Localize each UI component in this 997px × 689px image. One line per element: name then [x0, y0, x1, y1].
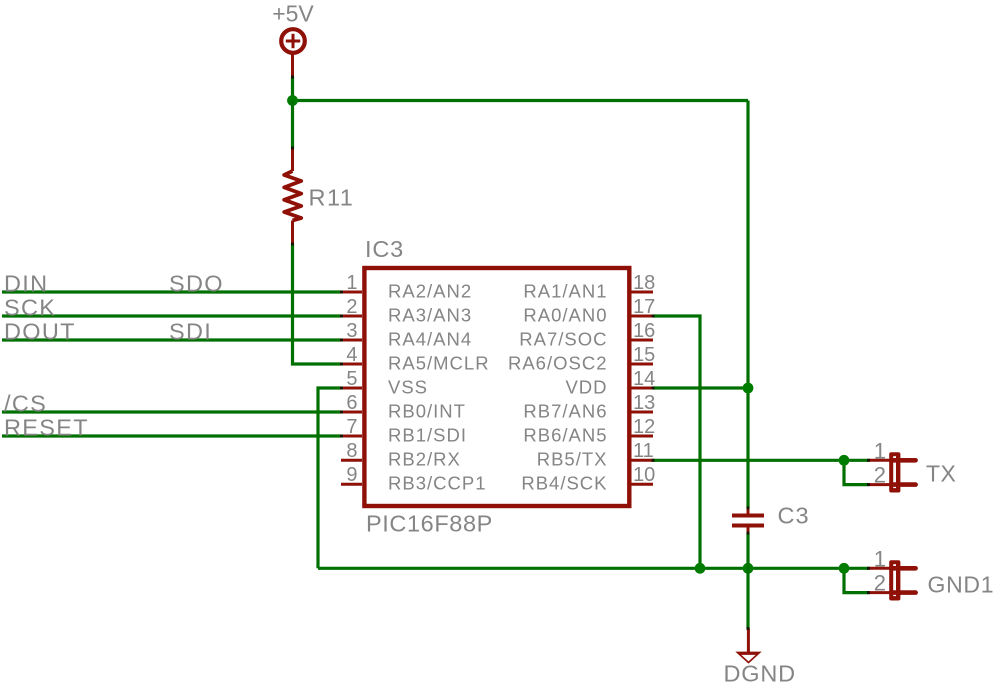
- svg-text:13: 13: [633, 392, 655, 414]
- wire R11 to pin 4: [293, 244, 342, 365]
- supply +5V: [281, 29, 305, 76]
- junction bus at x700: [695, 563, 706, 574]
- pin 17: [523, 296, 655, 326]
- svg-text:RB0/INT: RB0/INT: [388, 401, 466, 422]
- wire +5V stub to junction: [291, 77, 294, 101]
- wire pin 14 VDD to vertical: [653, 386, 748, 389]
- wire right vertical VDD drop: [746, 101, 749, 509]
- svg-text:9: 9: [346, 464, 357, 486]
- ground DGND: [735, 628, 761, 663]
- svg-text:RB4/SCK: RB4/SCK: [521, 473, 607, 494]
- svg-text:2: 2: [874, 571, 886, 596]
- pin 3: [341, 320, 472, 350]
- junction VDD: [743, 383, 754, 394]
- svg-text:TX: TX: [926, 461, 956, 487]
- resistor R11: [284, 149, 301, 244]
- svg-text:GND1: GND1: [928, 572, 995, 598]
- wire pin 17 down to bus: [653, 316, 700, 568]
- svg-text:SDI: SDI: [169, 319, 212, 345]
- svg-text:15: 15: [633, 344, 655, 366]
- pin 6: [341, 392, 466, 422]
- pin 8: [341, 440, 461, 470]
- wire GND1 pin2 drop: [844, 568, 869, 592]
- svg-text:+5V: +5V: [272, 1, 314, 27]
- connector GND1: [869, 546, 916, 600]
- pin 11: [537, 440, 654, 470]
- svg-text:IC3: IC3: [365, 236, 404, 262]
- wire VSS pin 5 to ground bus: [318, 388, 341, 568]
- svg-text:DIN: DIN: [4, 271, 48, 297]
- svg-text:RB5/TX: RB5/TX: [537, 449, 608, 470]
- svg-text:2: 2: [346, 296, 357, 318]
- wire C3 to DGND: [746, 533, 749, 628]
- svg-text:RA2/AN2: RA2/AN2: [388, 281, 472, 302]
- svg-text:VSS: VSS: [388, 377, 428, 398]
- svg-text:RA3/AN3: RA3/AN3: [388, 305, 472, 326]
- wire top horizontal run: [293, 99, 749, 102]
- svg-text:SCK: SCK: [4, 295, 56, 321]
- wire bottom ground bus: [318, 567, 869, 570]
- svg-text:RA0/AN0: RA0/AN0: [523, 305, 607, 326]
- junction at +5V node: [287, 95, 298, 106]
- pin connection darkening marks: [291, 76, 870, 630]
- svg-text:RB2/RX: RB2/RX: [388, 449, 461, 470]
- pin 13: [523, 392, 655, 422]
- svg-text:RESET: RESET: [4, 415, 89, 441]
- svg-text:R11: R11: [309, 185, 355, 211]
- svg-text:6: 6: [346, 392, 357, 414]
- svg-text:18: 18: [633, 272, 655, 294]
- wire net SCK to pin 2: [2, 314, 341, 317]
- svg-text:DOUT: DOUT: [4, 319, 76, 345]
- svg-text:16: 16: [633, 320, 655, 342]
- pin 15: [508, 344, 655, 374]
- svg-text:RB6/AN5: RB6/AN5: [523, 425, 607, 446]
- wire pin 11 RB5/TX to connector: [653, 459, 869, 462]
- svg-text:1: 1: [874, 438, 886, 463]
- capacitor C3: [732, 508, 764, 533]
- svg-text:3: 3: [346, 320, 357, 342]
- pin 2: [341, 296, 472, 326]
- wire net DIN to pin 1: [2, 290, 341, 293]
- pin 1: [341, 272, 472, 302]
- pin 5: [341, 368, 428, 398]
- svg-text:10: 10: [633, 464, 655, 486]
- svg-text:RA4/AN4: RA4/AN4: [388, 329, 472, 350]
- pin 7: [341, 416, 467, 446]
- junction bus at x844: [839, 563, 850, 574]
- pin 14: [565, 368, 655, 398]
- svg-text:11: 11: [633, 440, 654, 462]
- pin 18: [523, 272, 655, 302]
- svg-text:8: 8: [346, 440, 357, 462]
- svg-text:VDD: VDD: [565, 377, 607, 398]
- wire net RESET to pin 7: [2, 434, 341, 437]
- pin 9: [341, 464, 486, 494]
- svg-text:1: 1: [346, 272, 357, 294]
- svg-text:4: 4: [346, 344, 357, 366]
- svg-text:RB7/AN6: RB7/AN6: [523, 401, 607, 422]
- svg-text:C3: C3: [778, 503, 810, 529]
- pin 4: [341, 344, 490, 374]
- pin 10: [521, 464, 655, 494]
- svg-text:2: 2: [874, 463, 886, 488]
- wire TX pin2 drop: [844, 460, 869, 484]
- connector TX: [869, 438, 916, 492]
- svg-text:RB3/CCP1: RB3/CCP1: [388, 473, 486, 494]
- svg-text:DGND: DGND: [724, 661, 796, 687]
- svg-text:SDO: SDO: [169, 271, 224, 297]
- svg-text:/CS: /CS: [4, 391, 47, 417]
- svg-text:12: 12: [633, 416, 655, 438]
- svg-text:RA1/AN1: RA1/AN1: [523, 281, 607, 302]
- junction TX: [839, 455, 850, 466]
- IC3 PIC16F88P box: [364, 268, 629, 506]
- svg-text:RB1/SDI: RB1/SDI: [388, 425, 467, 446]
- svg-text:5: 5: [346, 368, 357, 390]
- svg-text:1: 1: [874, 546, 886, 571]
- wire net DOUT to pin 3: [2, 338, 341, 341]
- svg-text:RA6/OSC2: RA6/OSC2: [508, 353, 608, 374]
- junction bus at x748: [743, 563, 754, 574]
- wire junction down to R11: [291, 101, 294, 149]
- svg-text:RA5/MCLR: RA5/MCLR: [388, 353, 490, 374]
- svg-text:PIC16F88P: PIC16F88P: [366, 511, 493, 537]
- wire net /CS to pin 6: [2, 410, 341, 413]
- pin 12: [523, 416, 655, 446]
- svg-text:7: 7: [346, 416, 357, 438]
- pin 16: [519, 320, 655, 350]
- svg-text:RA7/SOC: RA7/SOC: [519, 329, 607, 350]
